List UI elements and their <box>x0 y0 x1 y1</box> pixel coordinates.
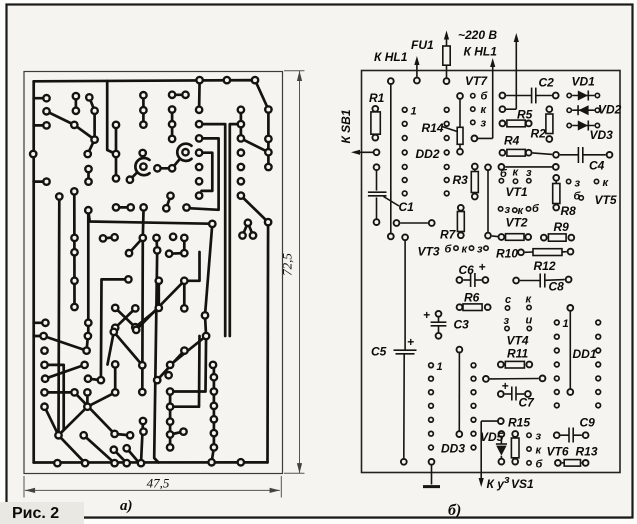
svg-text:1: 1 <box>411 106 417 118</box>
svg-text:1: 1 <box>563 318 569 330</box>
svg-text:R6: R6 <box>464 291 480 305</box>
svg-text:VD1: VD1 <box>572 75 596 89</box>
svg-text:б: б <box>536 459 544 471</box>
svg-text:К HL1: К HL1 <box>464 45 498 59</box>
svg-text:VT1: VT1 <box>506 185 528 199</box>
svg-text:VT4: VT4 <box>507 334 529 348</box>
svg-text:R14: R14 <box>422 121 444 135</box>
svg-text:VT2: VT2 <box>506 216 528 230</box>
svg-text:+: + <box>479 260 486 274</box>
svg-text:С3: С3 <box>454 318 470 332</box>
svg-text:VT6: VT6 <box>547 445 569 459</box>
svg-text:+: + <box>407 335 414 349</box>
svg-text:R12: R12 <box>534 259 556 273</box>
svg-text:R11: R11 <box>507 347 528 361</box>
svg-text:VT3: VT3 <box>418 245 440 259</box>
svg-text:R4: R4 <box>504 134 520 148</box>
svg-text:DD2: DD2 <box>416 147 440 161</box>
svg-text:47,5: 47,5 <box>147 476 170 491</box>
svg-text:Рис. 2: Рис. 2 <box>12 505 59 522</box>
svg-text:С9: С9 <box>580 416 596 430</box>
svg-text:R15: R15 <box>508 416 530 430</box>
svg-text:з: з <box>477 244 483 256</box>
svg-text:з: з <box>526 167 532 179</box>
svg-text:з: з <box>504 474 510 486</box>
svg-text:б: б <box>574 191 582 203</box>
svg-text:VS1: VS1 <box>511 477 534 491</box>
svg-text:з: з <box>504 315 510 327</box>
svg-text:К HL1: К HL1 <box>374 50 408 64</box>
svg-text:С1: С1 <box>399 200 415 214</box>
svg-text:R3: R3 <box>453 173 469 187</box>
svg-text:R7: R7 <box>440 228 457 242</box>
svg-text:R10: R10 <box>496 247 518 261</box>
svg-text:С5: С5 <box>371 345 387 359</box>
svg-text:R9: R9 <box>554 220 570 234</box>
svg-text:VT7: VT7 <box>465 74 488 88</box>
svg-text:С6: С6 <box>459 263 475 277</box>
svg-text:б: б <box>481 91 489 103</box>
svg-text:~220 В: ~220 В <box>458 28 497 42</box>
svg-text:R5: R5 <box>517 108 533 122</box>
svg-text:з: з <box>505 204 511 216</box>
svg-text:С7: С7 <box>519 396 536 410</box>
svg-text:з: з <box>481 118 487 130</box>
svg-text:VD5: VD5 <box>480 430 504 444</box>
svg-text:б: б <box>445 244 453 256</box>
svg-text:+: + <box>423 308 430 322</box>
svg-text:FU1: FU1 <box>411 38 434 52</box>
svg-text:з: з <box>536 431 542 443</box>
svg-text:К у: К у <box>487 477 506 491</box>
svg-text:б: б <box>532 203 540 215</box>
svg-text:R8: R8 <box>561 204 577 218</box>
svg-text:R2: R2 <box>531 127 547 141</box>
svg-text:VD2: VD2 <box>598 103 622 117</box>
svg-text:б: б <box>500 168 508 180</box>
svg-text:+: + <box>502 379 509 393</box>
svg-text:R13: R13 <box>576 445 598 459</box>
svg-text:DD3: DD3 <box>441 442 465 456</box>
svg-text:С2: С2 <box>539 76 555 90</box>
svg-text:1: 1 <box>437 361 443 373</box>
svg-text:72,5: 72,5 <box>280 253 295 276</box>
svg-text:VD3: VD3 <box>590 128 614 142</box>
svg-text:VT5: VT5 <box>595 193 617 207</box>
svg-text:и: и <box>526 315 533 327</box>
svg-text:К SB1: К SB1 <box>339 109 353 143</box>
svg-text:С4: С4 <box>589 159 605 173</box>
svg-text:з: з <box>575 178 581 190</box>
svg-text:R1: R1 <box>369 91 385 105</box>
svg-text:а): а) <box>120 498 133 514</box>
svg-text:б): б) <box>448 502 461 519</box>
svg-text:DD1: DD1 <box>573 347 597 361</box>
svg-text:С8: С8 <box>549 280 565 294</box>
svg-text:с: с <box>505 294 511 306</box>
